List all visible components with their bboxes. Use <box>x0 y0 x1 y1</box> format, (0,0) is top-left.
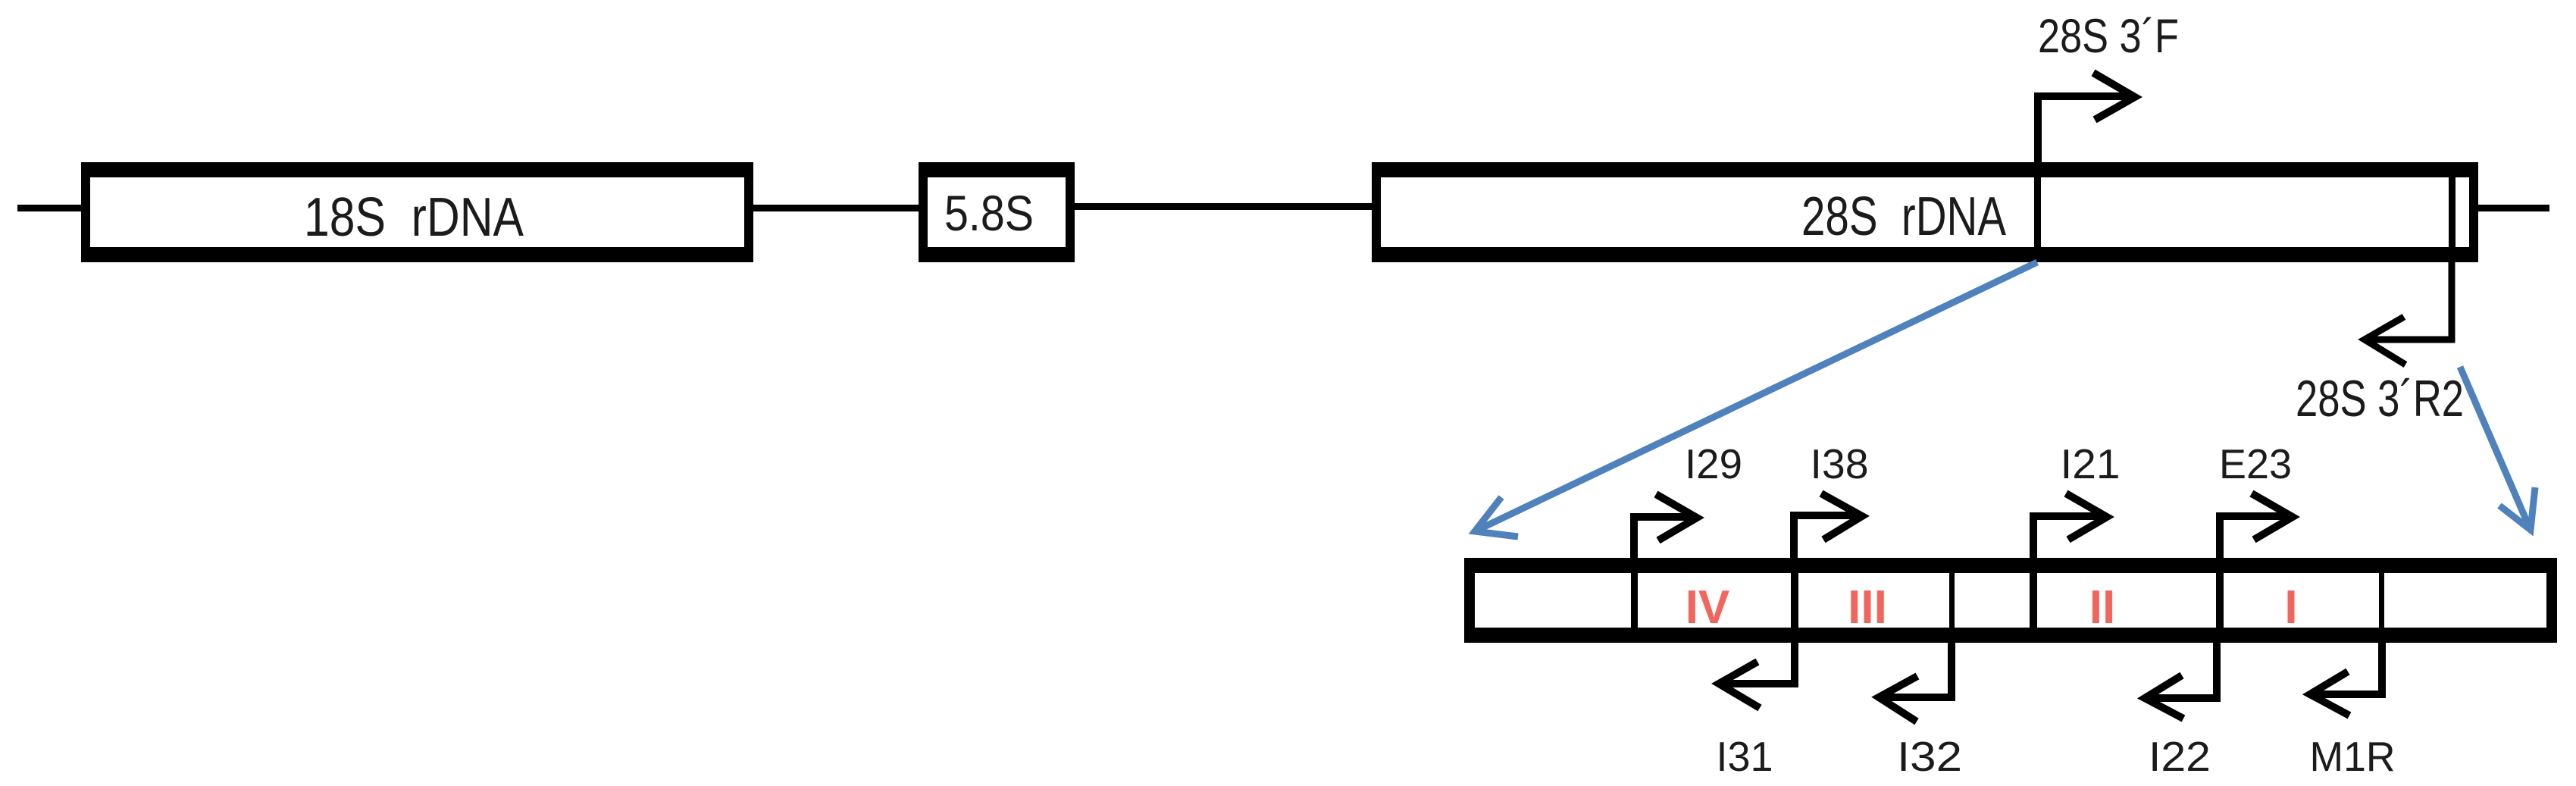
svg-text:I22: I22 <box>2149 733 2211 780</box>
svg-text:E23: E23 <box>2219 440 2292 487</box>
svg-text:I: I <box>2284 581 2297 634</box>
svg-text:I32: I32 <box>1897 733 1962 780</box>
svg-text:III: III <box>1848 581 1887 634</box>
blue arrow from 28S 3'R2 to bar right end <box>2460 367 2535 530</box>
primer arrow I29 (forward) <box>1634 494 1697 558</box>
wire 5.8S to 28S <box>1075 203 1372 210</box>
svg-text:II: II <box>2089 581 2115 634</box>
svg-text:28S 3´F: 28S 3´F <box>2038 10 2179 63</box>
svg-text:I21: I21 <box>2061 440 2121 487</box>
svg-text:IV: IV <box>1686 581 1730 634</box>
node divider D3 (I32 site) <box>1949 573 1955 628</box>
node divider D6 (M1R site) <box>2379 573 2384 628</box>
node divider inside 28S box at 3' region start <box>2034 177 2041 247</box>
primer arrow 28S 3'F (forward) <box>2038 73 2135 162</box>
svg-text:I31: I31 <box>1717 733 1773 780</box>
primer arrow I21 (forward) <box>2033 493 2107 558</box>
node divider D1 (I29 site) <box>1631 573 1638 628</box>
svg-text:M1R: M1R <box>2310 733 2396 780</box>
5.8S box <box>919 162 1075 262</box>
primer arrow I22 (reverse) <box>2145 643 2217 719</box>
primer arrow I31 (reverse) <box>1719 643 1795 708</box>
primer arrow I38 (forward) <box>1794 493 1862 558</box>
primer arrow M1R (reverse) <box>2310 643 2382 716</box>
wire left lead-in <box>17 205 89 211</box>
node divider D2 (I38/I31 site) <box>1791 573 1798 628</box>
primer arrow E23 (forward) <box>2220 493 2293 558</box>
node thin divider near 28S right end <box>2449 177 2455 247</box>
28S rDNA box <box>1372 162 2478 262</box>
wire right lead-out <box>2478 205 2549 211</box>
expanded 3' region bar <box>1464 558 2557 643</box>
primer arrow 28S 3'R2 (reverse) <box>2365 262 2452 365</box>
18S rDNA box <box>81 162 753 262</box>
svg-text:28S 3´R2: 28S 3´R2 <box>2296 370 2464 427</box>
blue arrow from 28S box to expanded bar (left) <box>1475 262 2037 537</box>
wire 18S to 5.8S <box>753 205 919 211</box>
svg-text:28S rDNA: 28S rDNA <box>1801 186 2006 247</box>
svg-text:I38: I38 <box>1811 440 1869 487</box>
node divider D4 (I21 site) <box>2030 573 2037 628</box>
node divider D5 (E23/I22 site) <box>2216 573 2224 628</box>
svg-text:18S rDNA: 18S rDNA <box>304 187 524 248</box>
primer arrow I32 (reverse) <box>1879 643 1952 722</box>
svg-text:5.8S: 5.8S <box>944 185 1034 241</box>
svg-text:I29: I29 <box>1685 440 1742 487</box>
